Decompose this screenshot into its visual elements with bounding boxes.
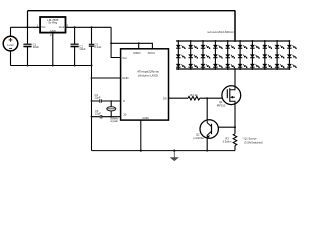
wire LED column 3 <box>202 41 204 69</box>
svg-text:* Q1 Source: * Q1 Source <box>243 136 258 140</box>
LED D1 column 1 row 1 <box>176 45 185 49</box>
svg-text:D9: D9 <box>163 96 167 100</box>
node C2 rail <box>74 26 76 28</box>
LED array top bus <box>176 40 290 42</box>
svg-text:crystal: crystal <box>110 119 118 123</box>
node XTAL2 ground <box>91 116 93 118</box>
LED D2 column 1 row 2 <box>176 55 185 59</box>
LED D16 column 6 row 1 <box>238 45 247 49</box>
svg-text:MISO: MISO <box>133 51 141 55</box>
wire LED supply drop to array <box>234 11 236 41</box>
LED D15 column 5 row 3 <box>226 64 235 68</box>
svg-text:2: 2 <box>50 33 52 37</box>
ground symbol <box>170 151 178 161</box>
svg-text:GND: GND <box>122 76 128 80</box>
LED D27 column 9 row 3 <box>275 64 284 68</box>
svg-text:R1 1k: R1 1k <box>190 93 198 97</box>
svg-text:10uF: 10uF <box>79 47 86 51</box>
wire top pin stub <box>138 43 140 49</box>
voltage regulator U2 LM7805 <box>36 17 68 37</box>
svg-text:0.5ohm: 0.5ohm <box>223 139 232 143</box>
microcontroller U1 ATmega328 <box>121 49 169 120</box>
LED array bottom bus <box>176 68 290 70</box>
LED D13 column 5 row 1 <box>226 45 235 49</box>
capacitor C1 10uF <box>23 27 39 65</box>
wire regulator GND pin <box>52 33 54 66</box>
wire 5V drop to Vcc <box>111 27 121 57</box>
LED D28 column 10 row 1 <box>287 45 296 49</box>
transistor Q2 pn2222a <box>194 120 219 140</box>
svg-text:(0.5A/Switched): (0.5A/Switched) <box>244 140 262 144</box>
svg-text:IRF510: IRF510 <box>217 104 226 108</box>
node source / base junction <box>234 126 236 128</box>
svg-text:red round 20mA 600mcd: red round 20mA 600mcd <box>207 31 234 34</box>
svg-text:AVCC: AVCC <box>148 51 156 55</box>
svg-text:GND: GND <box>142 116 148 120</box>
LED D20 column 7 row 2 <box>250 55 259 59</box>
wire XTAL2 net <box>92 116 121 118</box>
node ground GND branch <box>91 77 93 79</box>
node C2 ground <box>74 65 76 67</box>
svg-text:Li-Ion: Li-Ion <box>7 43 14 47</box>
LED D17 column 6 row 2 <box>238 55 247 59</box>
LED D30 column 10 row 3 <box>287 64 296 68</box>
svg-text:Vcc: Vcc <box>122 56 127 60</box>
svg-text:Vin: Vin <box>41 25 45 29</box>
node regulator ground <box>52 65 54 67</box>
bottom ground rail <box>92 150 236 152</box>
node gate / Q2 collector junction <box>206 97 208 99</box>
wire Q1 source down <box>234 105 236 134</box>
wire junction down to Q2 collector <box>206 98 208 120</box>
resistor R1 1k <box>188 93 200 100</box>
wire LED column 1 <box>177 41 179 69</box>
LED D8 column 3 row 2 <box>201 55 210 59</box>
capacitor C4 22pF <box>95 93 102 103</box>
LED D21 column 7 row 3 <box>250 64 259 68</box>
note R3 annotation <box>243 136 263 144</box>
LED D25 column 9 row 1 <box>275 45 284 49</box>
svg-text:Q1: Q1 <box>219 100 223 104</box>
resistor R3 0.5ohm <box>223 134 237 146</box>
capacitor C5 22pF <box>95 109 102 119</box>
LED D24 column 8 row 3 <box>263 64 272 68</box>
wire R3 to ground rail <box>234 146 236 151</box>
wire AVCC branch <box>111 43 152 49</box>
node IC GND on rail <box>140 150 142 152</box>
LED D3 column 1 row 3 <box>176 64 185 68</box>
node AVCC branch <box>110 42 112 44</box>
wire LED column 4 <box>214 41 216 69</box>
wire LED column 5 <box>227 41 229 69</box>
LED D5 column 2 row 2 <box>189 55 198 59</box>
node XTAL1 ground <box>91 100 93 102</box>
crystal Y1 16MHz <box>107 101 119 123</box>
svg-text:5v Reg: 5v Reg <box>48 21 57 25</box>
wire Q2 emitter to ground rail <box>206 138 208 151</box>
node C3 rail <box>91 26 93 28</box>
node crystal XTAL1 <box>110 100 112 102</box>
LED D22 column 8 row 1 <box>263 45 272 49</box>
svg-text:22pF: 22pF <box>95 96 101 100</box>
wire regulator output rail <box>66 26 112 28</box>
wire battery - to ground rail <box>10 51 12 66</box>
wire Q2 base to junction <box>218 126 235 128</box>
wire ground to IC GND pin <box>92 77 121 79</box>
capacitor C2 10uF <box>71 27 86 65</box>
wire LED array to Q1 drain <box>234 69 236 86</box>
svg-text:10uF: 10uF <box>33 45 40 49</box>
wire R1 to gate <box>200 97 228 99</box>
LED D18 column 6 row 3 <box>238 64 247 68</box>
wire IC D9 to R1 <box>169 97 189 99</box>
LED D26 column 9 row 2 <box>275 55 284 59</box>
ground rail left <box>11 65 92 67</box>
svg-text:(Arduino UNO): (Arduino UNO) <box>138 74 158 78</box>
wire positive rail to regulator Vin <box>11 26 41 28</box>
wire LED column 10 <box>288 41 290 69</box>
wire LED column 8 <box>264 41 266 69</box>
LED D29 column 10 row 2 <box>287 55 296 59</box>
LED D6 column 2 row 3 <box>189 64 198 68</box>
svg-text:pn2222a: pn2222a <box>194 136 205 140</box>
LED D12 column 4 row 3 <box>213 64 222 68</box>
wire LED column 7 <box>251 41 253 69</box>
wire LED column 2 <box>190 41 192 69</box>
LED D7 column 3 row 1 <box>201 45 210 49</box>
wire IC GND pin to bottom rail <box>140 120 142 151</box>
battery BT1 Li-Ion <box>3 36 18 51</box>
node ground symbol on rail <box>173 150 175 152</box>
svg-text:10: 10 <box>123 113 127 117</box>
LED D9 column 3 row 3 <box>201 64 210 68</box>
wire LED column 6 <box>239 41 241 69</box>
svg-text:0.1uF: 0.1uF <box>94 45 101 49</box>
node top pin stub <box>138 42 140 44</box>
LED D23 column 8 row 2 <box>263 55 272 59</box>
svg-text:22pF: 22pF <box>95 111 101 115</box>
MOSFET Q1 IRF510 <box>217 86 241 108</box>
wire battery + to rail <box>10 27 12 36</box>
node drain tap on bottom bus <box>234 68 236 70</box>
LED D10 column 4 row 1 <box>213 45 222 49</box>
wire XTAL1 net <box>92 100 121 102</box>
LED D11 column 4 row 2 <box>213 55 222 59</box>
LED D19 column 7 row 1 <box>250 45 259 49</box>
wire LED column 9 <box>276 41 278 69</box>
node battery rail / LED feed tap <box>27 26 29 28</box>
svg-text:Vout: Vout <box>59 25 65 29</box>
LED D14 column 5 row 2 <box>226 55 235 59</box>
node feed on top bus <box>234 40 236 42</box>
capacitor C3 0.1uF <box>89 27 102 65</box>
wire LED supply top run <box>28 10 236 12</box>
ground trunk down left of IC <box>91 66 93 151</box>
wire LED supply riser <box>27 11 29 28</box>
node ground rail corner <box>91 65 93 67</box>
LED D4 column 2 row 1 <box>189 45 198 49</box>
node C1 ground <box>27 65 29 67</box>
node crystal XTAL2 <box>110 116 112 118</box>
node emitter on rail <box>206 150 208 152</box>
